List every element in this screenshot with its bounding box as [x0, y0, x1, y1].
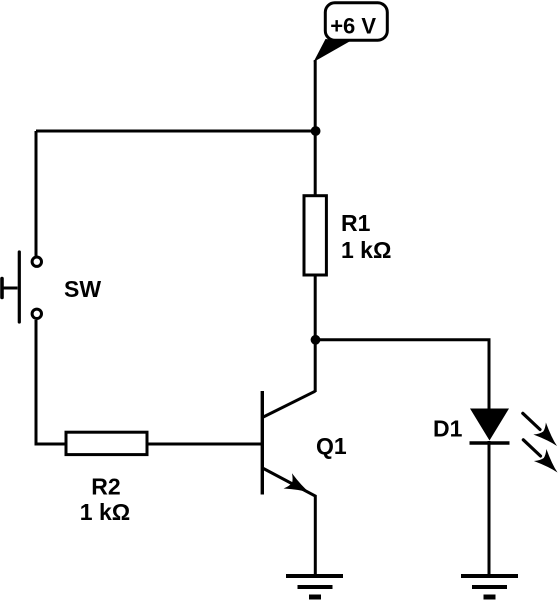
transistor Q1	[262, 391, 315, 576]
svg-text:+6 V: +6 V	[330, 14, 376, 39]
resistor R1	[304, 196, 326, 275]
svg-text:R1: R1	[341, 210, 371, 236]
wire R1 bottom to collector	[314, 275, 317, 392]
node +6V supply label	[325, 3, 387, 40]
terminal circle top	[32, 257, 41, 266]
junction top node	[311, 126, 321, 136]
base bar	[261, 391, 264, 495]
svg-text:Q1: Q1	[316, 433, 347, 459]
ground under Q1	[286, 576, 343, 597]
actuator bar	[18, 252, 21, 322]
anode triangle	[470, 409, 509, 441]
wire junction to LED	[315, 340, 489, 411]
svg-text:SW: SW	[64, 276, 101, 302]
svg-text:R2: R2	[91, 474, 120, 500]
svg-text:D1: D1	[433, 416, 463, 442]
wire left vertical down to switch	[35, 131, 38, 256]
LED D1	[470, 409, 558, 479]
wire supply vertical from +6V tail to R1 top	[314, 60, 317, 196]
light arrow 1	[523, 413, 558, 452]
emitter diagonal and wire to ground	[263, 468, 316, 576]
cathode bar	[470, 441, 510, 445]
ground under D1	[461, 576, 518, 597]
light arrow 2	[523, 440, 558, 479]
svg-text:1 kΩ: 1 kΩ	[341, 237, 391, 263]
collector diagonal	[262, 391, 315, 417]
plunger stem	[2, 287, 18, 290]
wire base from R2 to Q1	[147, 443, 262, 446]
wire LED cathode to ground	[488, 441, 491, 576]
wire top horizontal from left branch to junction	[36, 130, 316, 133]
terminal circle bottom	[32, 309, 41, 318]
resistor R2	[66, 432, 147, 454]
plunger cap tick	[0, 279, 4, 298]
svg-text:1 kΩ: 1 kΩ	[80, 499, 130, 525]
switch SW pushbutton	[2, 252, 42, 322]
node +6V supply tail	[314, 39, 350, 62]
wire from switch bottom down and right to R2	[36, 320, 66, 444]
junction collector node	[311, 335, 321, 345]
emitter arrow	[284, 473, 314, 500]
